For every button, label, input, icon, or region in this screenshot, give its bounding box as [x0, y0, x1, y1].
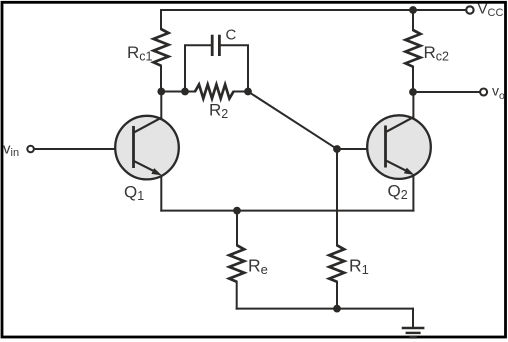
wire diagonal R2 node to Q2 base node: [248, 92, 337, 150]
node Rc2 / output: [409, 88, 417, 96]
node Vcc rail / Rc2: [409, 6, 417, 14]
wire Re bottom lead: [236, 282, 238, 309]
wire Q1 collector vertical: [160, 92, 162, 118]
svg-text:C: C: [226, 27, 237, 44]
wire R1 bottom lead: [336, 282, 338, 309]
wire Rc1 top lead: [160, 10, 162, 29]
resistor Rc2: [406, 30, 421, 67]
node C/R2 left: [181, 88, 189, 96]
wire R2 right lead: [234, 91, 249, 93]
node C/R2 right: [244, 88, 252, 96]
node emitter bus / Re: [233, 207, 241, 215]
node lower bus / R1: [333, 305, 341, 313]
wire Rc2 top lead: [412, 10, 414, 30]
wire Q1 emitter vertical: [160, 175, 162, 211]
wire ground lead: [412, 309, 414, 328]
wire Q2 collector vertical: [412, 92, 414, 118]
resistor Rc1: [154, 29, 169, 66]
wire Q2 emitter vertical: [412, 175, 414, 211]
wire Q2-base node down to R1: [336, 149, 338, 245]
wire lower bus: [237, 308, 413, 310]
wire C loop left vertical: [185, 45, 211, 91]
wire node row (collector Q1 to R2 left): [161, 91, 195, 93]
node Q2 base: [333, 145, 341, 153]
wire C loop right vertical: [221, 45, 248, 91]
terminal vo: [480, 89, 487, 96]
wire top rail (Vcc rail): [161, 9, 466, 11]
wire Rc1 bottom lead: [160, 66, 162, 92]
terminal vin: [27, 146, 34, 153]
wire vin terminal to Q1 base: [34, 148, 133, 150]
transistor Q2: [367, 115, 431, 179]
wire Re top lead: [236, 211, 238, 246]
wire Q2 base lead: [337, 148, 386, 150]
wire Rc2 bottom lead: [412, 67, 414, 92]
resistor Re: [229, 245, 244, 281]
capacitor C plates: [212, 35, 219, 56]
wire output node to vo terminal: [413, 91, 480, 93]
ground: [402, 328, 425, 337]
transistor Q1: [115, 116, 179, 180]
wire emitter bus: [161, 210, 413, 212]
resistor R2: [195, 85, 234, 99]
resistor R1: [329, 245, 344, 281]
terminal Vcc: [466, 6, 473, 13]
node Q1 collector / feedback: [157, 88, 165, 96]
